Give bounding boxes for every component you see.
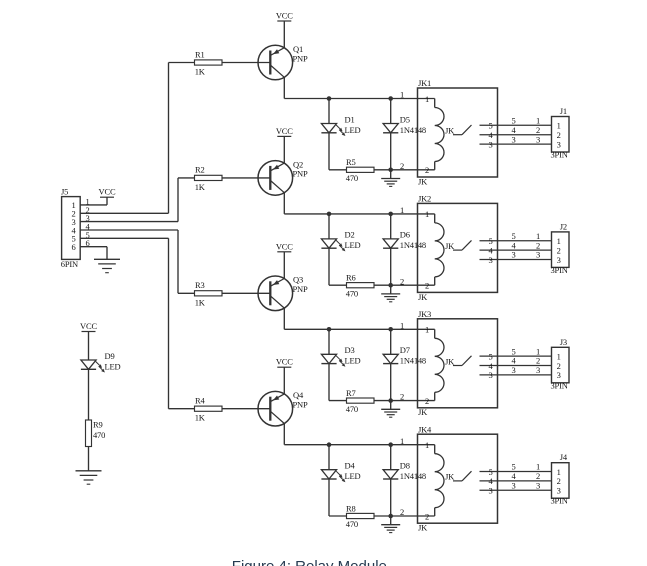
svg-text:3: 3 xyxy=(557,486,561,496)
svg-text:PNP: PNP xyxy=(293,169,308,179)
relay JK3 coil xyxy=(434,329,436,338)
wire J5 pin2 to R1 xyxy=(80,212,168,214)
diode D7 1N4148 xyxy=(390,329,392,354)
node dot diode D7 bottom xyxy=(388,398,393,403)
relay JK2 coil xyxy=(434,214,436,223)
svg-text:JK: JK xyxy=(418,176,428,186)
diode D5 1N4148 xyxy=(390,99,392,124)
resistor R6 470 xyxy=(347,283,375,288)
resistor R4 1K xyxy=(195,406,223,411)
svg-text:470: 470 xyxy=(346,519,358,529)
resistor R5 470 xyxy=(347,167,375,172)
svg-text:VCC: VCC xyxy=(276,126,293,136)
svg-text:R1: R1 xyxy=(195,49,205,59)
svg-text:R8: R8 xyxy=(346,503,356,513)
svg-text:1: 1 xyxy=(400,436,404,446)
svg-text:J4: J4 xyxy=(560,452,568,462)
svg-text:JK: JK xyxy=(418,292,428,302)
relay JK3 box xyxy=(418,319,498,408)
svg-text:JK1: JK1 xyxy=(418,78,431,88)
svg-text:J3: J3 xyxy=(560,337,567,347)
svg-text:1: 1 xyxy=(425,440,429,450)
svg-text:6: 6 xyxy=(71,242,75,252)
svg-text:JK: JK xyxy=(445,241,455,251)
relay JK1 contact wire pin 3 xyxy=(480,143,552,145)
svg-text:J5: J5 xyxy=(61,187,68,197)
svg-text:LED: LED xyxy=(345,356,361,366)
svg-text:J2: J2 xyxy=(560,221,567,231)
node dot diode D8 bottom xyxy=(388,514,393,519)
node dot collector/LED D4 xyxy=(327,442,332,447)
svg-text:1: 1 xyxy=(400,205,404,215)
connector J5 6PIN header xyxy=(62,197,81,260)
svg-text:3: 3 xyxy=(557,255,561,265)
D3 emission arrows xyxy=(336,356,340,360)
wire J5 pin4 to R3 xyxy=(80,229,178,231)
svg-text:3: 3 xyxy=(488,139,492,149)
ground channel 4 xyxy=(390,516,392,525)
svg-text:JK: JK xyxy=(418,407,428,417)
svg-text:470: 470 xyxy=(346,404,358,414)
svg-text:LED: LED xyxy=(345,240,361,250)
svg-text:3PIN: 3PIN xyxy=(551,496,568,506)
relay JK4 contact wire pin 3 xyxy=(480,489,552,491)
svg-text:R6: R6 xyxy=(346,273,356,283)
wire Q1 collector to relay JK1 coil xyxy=(283,77,285,98)
svg-text:D3: D3 xyxy=(345,345,355,355)
relay JK4 box xyxy=(418,434,498,523)
relay JK1 contact wire pin 5 xyxy=(480,124,552,126)
resistor R3 1K xyxy=(195,291,223,296)
wire R1 to Q1 base xyxy=(222,62,270,64)
wire Q3 collector to relay JK3 coil xyxy=(283,308,285,329)
relay JK2 contact wire pin 5 xyxy=(480,240,552,242)
node dot collector/diode D6 xyxy=(388,212,393,217)
svg-text:2: 2 xyxy=(400,276,404,286)
svg-text:VCC: VCC xyxy=(276,11,293,21)
svg-text:3: 3 xyxy=(511,365,515,375)
wire bottom row channel 1 xyxy=(329,169,435,171)
wire Q2 collector to relay JK2 coil xyxy=(283,193,285,214)
svg-text:2: 2 xyxy=(425,511,429,521)
wire Q4 collector to relay JK4 coil xyxy=(283,424,285,445)
wire R9 to ground xyxy=(88,447,90,471)
svg-text:1: 1 xyxy=(425,325,429,335)
svg-text:470: 470 xyxy=(93,430,105,440)
relay JK4 contact wire pin 5 xyxy=(480,471,552,473)
svg-text:JK: JK xyxy=(445,472,455,482)
wire R2 to Q2 base xyxy=(222,177,270,179)
relay JK1 coil xyxy=(434,99,436,108)
svg-text:3: 3 xyxy=(488,255,492,265)
svg-text:1: 1 xyxy=(425,209,429,219)
transistor Q1 PNP xyxy=(258,45,293,80)
svg-text:3: 3 xyxy=(557,370,561,380)
node dot diode D5 bottom xyxy=(388,168,393,173)
transistor Q3 PNP xyxy=(258,276,293,311)
node dot collector/diode D7 xyxy=(388,327,393,332)
LED D9 xyxy=(81,360,96,369)
svg-text:2: 2 xyxy=(400,392,404,402)
svg-text:3PIN: 3PIN xyxy=(551,265,568,275)
node dot collector/diode D8 xyxy=(388,442,393,447)
ground channel 1 xyxy=(390,170,392,179)
svg-text:VCC: VCC xyxy=(99,187,116,197)
svg-text:2: 2 xyxy=(400,507,404,517)
wire J5 pin6 to ground xyxy=(80,246,107,248)
svg-text:J1: J1 xyxy=(560,106,567,116)
svg-text:2: 2 xyxy=(425,396,429,406)
svg-text:D6: D6 xyxy=(400,230,410,240)
svg-text:R2: R2 xyxy=(195,165,205,175)
relay JK3 contact wire pin 5 xyxy=(480,355,552,357)
wire bottom row channel 4 xyxy=(329,515,435,517)
wire J5 pin3 to R2 xyxy=(80,221,178,223)
svg-text:D2: D2 xyxy=(345,230,355,240)
node dot collector/LED D3 xyxy=(327,327,332,332)
svg-text:JK2: JK2 xyxy=(418,194,431,204)
svg-text:1K: 1K xyxy=(195,67,206,77)
svg-text:1K: 1K xyxy=(195,413,206,423)
svg-text:D8: D8 xyxy=(400,461,410,471)
svg-text:VCC: VCC xyxy=(276,357,293,367)
diode D8 1N4148 xyxy=(390,445,392,470)
svg-text:1K: 1K xyxy=(195,297,206,307)
svg-text:LED: LED xyxy=(345,471,361,481)
wire D9 to R9 xyxy=(88,369,90,420)
wire bottom row channel 3 xyxy=(329,400,435,402)
svg-text:1K: 1K xyxy=(195,182,206,192)
svg-text:VCC: VCC xyxy=(80,321,97,331)
svg-text:PNP: PNP xyxy=(293,400,308,410)
resistor R1 1K xyxy=(195,60,223,65)
svg-text:LED: LED xyxy=(345,125,361,135)
D2 emission arrows xyxy=(336,240,340,244)
relay JK4 coil xyxy=(434,445,436,454)
svg-text:3: 3 xyxy=(511,481,515,491)
relay JK1 contact wire pin 4 xyxy=(480,134,552,136)
wire R4 to Q4 base xyxy=(222,408,270,410)
svg-text:1N4148: 1N4148 xyxy=(400,240,426,250)
LED D4 xyxy=(328,445,330,470)
power VCC at J5 pin1 xyxy=(106,197,108,205)
svg-text:2: 2 xyxy=(400,161,404,171)
svg-text:3: 3 xyxy=(511,134,515,144)
svg-text:3: 3 xyxy=(536,365,540,375)
ground below R9 xyxy=(76,470,102,472)
svg-text:R5: R5 xyxy=(346,157,356,167)
svg-text:D7: D7 xyxy=(400,345,410,355)
svg-text:3: 3 xyxy=(557,139,561,149)
svg-text:3: 3 xyxy=(536,250,540,260)
svg-text:R4: R4 xyxy=(195,396,205,406)
svg-text:3: 3 xyxy=(488,370,492,380)
D1 emission arrows xyxy=(336,125,340,129)
svg-text:R7: R7 xyxy=(346,388,356,398)
D9 emission arrows xyxy=(96,362,100,366)
svg-text:3PIN: 3PIN xyxy=(551,150,568,160)
svg-text:3: 3 xyxy=(488,486,492,496)
relay JK3 contact wire pin 4 xyxy=(480,365,552,367)
node dot collector/LED D1 xyxy=(327,96,332,101)
svg-text:3: 3 xyxy=(536,134,540,144)
svg-text:D4: D4 xyxy=(345,461,356,471)
svg-text:D5: D5 xyxy=(400,114,410,124)
svg-text:PNP: PNP xyxy=(293,53,308,63)
svg-text:JK4: JK4 xyxy=(418,424,432,434)
svg-text:470: 470 xyxy=(346,173,358,183)
svg-text:D9: D9 xyxy=(105,351,115,361)
svg-text:1: 1 xyxy=(400,320,404,330)
connector J2 3PIN xyxy=(552,232,570,268)
relay JK3 contact wire pin 3 xyxy=(480,374,552,376)
svg-text:Figure 4: Relay Module: Figure 4: Relay Module xyxy=(232,558,387,566)
resistor R8 470 xyxy=(347,513,375,518)
svg-text:3PIN: 3PIN xyxy=(551,380,568,390)
svg-text:1: 1 xyxy=(425,94,429,104)
resistor R2 1K xyxy=(195,175,223,180)
svg-text:6PIN: 6PIN xyxy=(61,259,78,269)
LED D3 xyxy=(328,329,330,354)
svg-text:1N4148: 1N4148 xyxy=(400,471,426,481)
resistor R7 470 xyxy=(347,398,375,403)
diode D6 1N4148 xyxy=(390,214,392,239)
svg-text:JK: JK xyxy=(445,356,455,366)
wire bottom row channel 2 xyxy=(329,284,435,286)
svg-text:PNP: PNP xyxy=(293,284,308,294)
svg-text:1: 1 xyxy=(400,90,404,100)
svg-text:LED: LED xyxy=(105,361,121,371)
svg-text:R3: R3 xyxy=(195,280,205,290)
transistor Q4 PNP xyxy=(258,391,293,426)
connector J1 3PIN xyxy=(552,117,570,153)
relay JK4 contact wire pin 4 xyxy=(480,480,552,482)
svg-text:JK3: JK3 xyxy=(418,309,431,319)
resistor R9 470 xyxy=(86,420,92,447)
LED D2 xyxy=(328,214,330,239)
node dot diode D6 bottom xyxy=(388,283,393,288)
svg-text:3: 3 xyxy=(511,250,515,260)
ground channel 2 xyxy=(390,285,392,294)
wire VCC to D9 xyxy=(88,332,90,361)
svg-text:R9: R9 xyxy=(93,420,103,430)
ground at J5 pin6 xyxy=(94,258,120,260)
svg-text:3: 3 xyxy=(536,481,540,491)
wire R3 to Q3 base xyxy=(222,292,270,294)
svg-text:JK: JK xyxy=(445,126,455,136)
svg-text:D1: D1 xyxy=(345,114,355,124)
connector J4 3PIN xyxy=(552,463,570,499)
relay JK1 box xyxy=(418,88,498,177)
ground channel 3 xyxy=(390,401,392,410)
svg-text:VCC: VCC xyxy=(276,241,293,251)
svg-text:2: 2 xyxy=(425,281,429,291)
wire J5 pin1 to VCC xyxy=(80,204,107,206)
LED D1 xyxy=(328,99,330,124)
D4 emission arrows xyxy=(336,471,340,475)
node dot collector/diode D5 xyxy=(388,96,393,101)
relay JK2 contact wire pin 3 xyxy=(480,259,552,261)
node dot collector/LED D2 xyxy=(327,212,332,217)
wire J5 pin5 to R4 xyxy=(80,237,168,239)
svg-text:1N4148: 1N4148 xyxy=(400,125,426,135)
svg-text:1N4148: 1N4148 xyxy=(400,356,426,366)
svg-text:JK: JK xyxy=(418,523,428,533)
svg-text:470: 470 xyxy=(346,288,358,298)
transistor Q2 PNP xyxy=(258,161,293,196)
connector J3 3PIN xyxy=(552,347,570,383)
svg-text:2: 2 xyxy=(425,165,429,175)
relay JK2 box xyxy=(418,203,498,292)
relay JK2 contact wire pin 4 xyxy=(480,249,552,251)
